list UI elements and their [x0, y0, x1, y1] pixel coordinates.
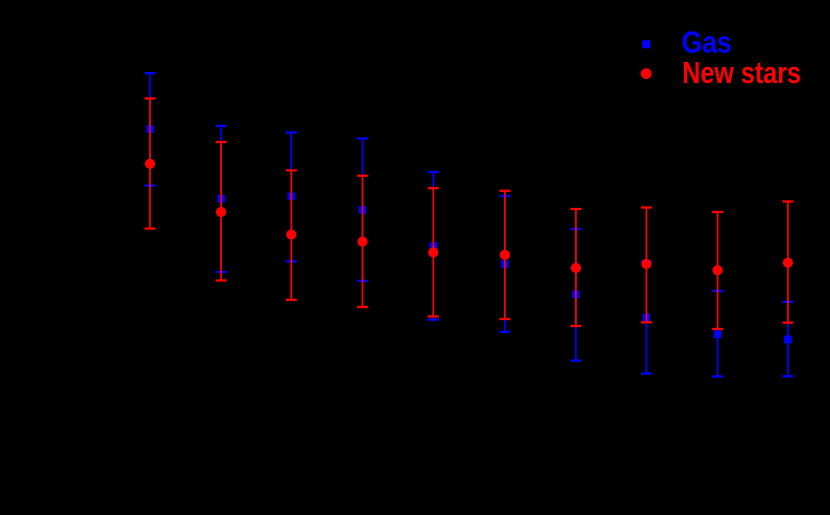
legend label: New stars — [682, 55, 801, 90]
legend marker: New stars (red circle) — [641, 68, 652, 79]
New stars error bar, point 9 — [712, 212, 723, 329]
New stars error bar, point 7 — [570, 209, 581, 326]
Gas error bar, point 7 — [570, 229, 581, 361]
New stars error bar, point 4 — [357, 176, 368, 307]
legend marker: Gas (blue square) — [642, 40, 650, 48]
Gas error bar, point 10 — [782, 302, 793, 377]
Gas error bar, point 3 — [286, 133, 297, 262]
New stars error bar, point 10 — [782, 202, 793, 323]
Gas error bar, point 4 — [357, 139, 368, 281]
New stars error bar, point 6 — [499, 191, 510, 319]
Gas error bar, point 5 — [428, 172, 439, 320]
legend label: Gas — [682, 25, 732, 60]
Gas error bar, point 1 — [145, 73, 156, 185]
New stars error bar, point 1 — [145, 98, 156, 228]
svg-text:New stars: New stars — [682, 55, 801, 90]
New stars error bar, point 8 — [641, 208, 652, 323]
Gas error bar, point 6 — [499, 196, 510, 332]
Gas error bar, point 9 — [712, 291, 723, 377]
New stars error bar, point 2 — [216, 142, 227, 281]
Gas error bar, point 2 — [216, 126, 227, 272]
New stars error bar, point 3 — [286, 170, 297, 299]
New stars error bar, point 5 — [428, 188, 439, 316]
Gas error bar, point 8 — [641, 262, 652, 374]
